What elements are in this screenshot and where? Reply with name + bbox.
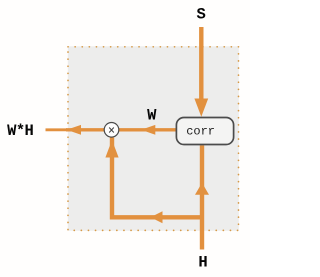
arrowhead into X bbox=[105, 140, 118, 158]
corr box U1 bbox=[176, 118, 233, 145]
wire H to corr bbox=[200, 145, 204, 249]
arrowhead W edge bbox=[141, 125, 155, 135]
wire X to W*H inside bbox=[66, 128, 105, 131]
svg-text:corr: corr bbox=[186, 125, 215, 139]
svg-text:W*H: W*H bbox=[7, 122, 33, 140]
wire corr to X (W edge) bbox=[119, 128, 176, 131]
svg-text:H: H bbox=[198, 254, 207, 272]
svg-text:W: W bbox=[147, 106, 157, 124]
multiply node X bbox=[104, 123, 119, 138]
multiply x glyph bbox=[109, 128, 114, 133]
wire X to W*H output bbox=[46, 128, 68, 131]
wire S to corr bbox=[199, 27, 203, 103]
wire H branch to X (bent) bbox=[112, 138, 202, 218]
cluster panel fill bbox=[68, 46, 239, 230]
arrowhead into corr bbox=[194, 99, 208, 117]
svg-text:S: S bbox=[197, 6, 206, 24]
cluster dotted border bbox=[68, 47, 239, 231]
arrowhead W*H edge bbox=[67, 125, 82, 135]
arrowhead branch horizontal bbox=[151, 211, 163, 223]
arrowhead H to corr bbox=[195, 183, 209, 195]
